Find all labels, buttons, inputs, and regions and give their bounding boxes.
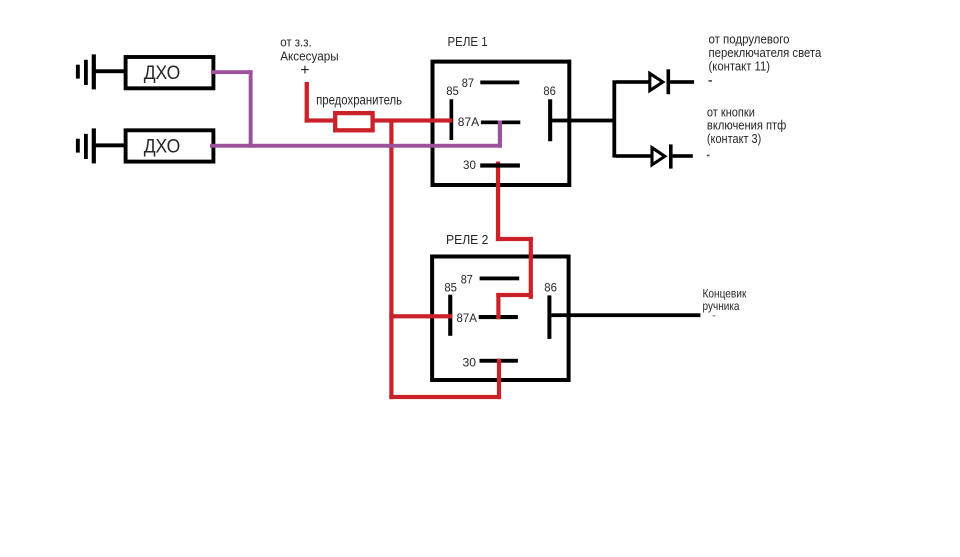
svg-text:ДХО: ДХО <box>144 136 181 157</box>
node diode junction vertical <box>612 80 616 157</box>
relay U1 pin 30 bar over red <box>480 163 520 167</box>
wire red bottom horizontal <box>389 395 501 399</box>
relay U1 RELE1 outline <box>433 35 570 185</box>
relay U2 pin 87 <box>461 272 520 286</box>
svg-text:87А: 87А <box>457 311 477 325</box>
relay U1 pin 87A <box>458 115 521 129</box>
wire red jog left <box>496 293 533 297</box>
svg-text:от з.з.: от з.з. <box>280 36 312 50</box>
wire purple from DRL1 <box>211 70 253 74</box>
fuse F1 <box>335 113 372 130</box>
wire purple up to relay1 pin87A <box>498 121 502 148</box>
wire purple down <box>249 70 253 148</box>
svg-text:Концевик: Концевик <box>703 288 748 301</box>
relay U2 RELE2 outline <box>432 233 568 380</box>
svg-text:85: 85 <box>444 281 457 295</box>
wire red tee onto relay2 87A <box>496 315 500 319</box>
svg-text:87: 87 <box>461 272 473 286</box>
svg-text:85: 85 <box>446 84 459 98</box>
wire GND2 to DRL2 <box>96 143 128 147</box>
wire red jog right <box>496 237 533 241</box>
svg-text:87А: 87А <box>458 115 479 129</box>
relay U2 pin 85 <box>444 281 457 336</box>
wire red to fuse <box>305 118 336 122</box>
wire red jog down <box>529 237 533 299</box>
wire GND1 to DRL1 <box>96 69 128 73</box>
wire node to diode D1 <box>616 80 649 84</box>
label steering column switch (kontakt 11) <box>709 31 822 82</box>
relay U1 pin 85 <box>446 84 459 140</box>
svg-text:ДХО: ДХО <box>144 63 181 84</box>
label fog light button (kontakt 3) <box>707 104 787 156</box>
DRL unit DHO2 <box>126 130 214 161</box>
wire D1 out <box>670 80 694 84</box>
wire node to diode D2 <box>616 154 651 158</box>
svg-text:(контакт 11): (контакт 11) <box>709 58 771 73</box>
svg-text:ручника: ручника <box>703 300 740 313</box>
diode D1 <box>650 69 670 94</box>
svg-text:РЕЛЕ 2: РЕЛЕ 2 <box>446 233 488 247</box>
wire purple from DRL2 to relay1 <box>210 144 502 148</box>
DRL unit DHO1 <box>126 57 214 88</box>
svg-text:РЕЛЕ 1: РЕЛЕ 1 <box>448 35 488 49</box>
svg-text:от подрулевого: от подрулевого <box>709 31 790 46</box>
wire red tee onto relay2 30 <box>497 359 501 363</box>
svg-text:86: 86 <box>544 281 557 295</box>
wire relay1 pin86 to diode node <box>551 119 615 123</box>
svg-text:(контакт 3): (контакт 3) <box>707 131 761 146</box>
relay U2 pin 86 <box>544 281 557 339</box>
svg-text:30: 30 <box>463 356 477 370</box>
wire red to relay2 pin85 <box>389 314 452 318</box>
wire red main branch down <box>389 119 393 399</box>
wire red down to relay2 pin87A <box>496 293 500 319</box>
relay U2 pin 30 bar <box>480 359 518 363</box>
wire D2 out <box>673 154 693 158</box>
wire red from plus down <box>305 82 309 123</box>
ground GND2 <box>76 128 96 163</box>
relay U1 pin 87 <box>462 76 520 90</box>
relay U1 pin 86 <box>543 84 556 141</box>
label handbrake switch koncevik ruchnika <box>703 288 748 317</box>
svg-text:86: 86 <box>543 84 556 98</box>
ground GND1 <box>76 54 96 89</box>
svg-text:30: 30 <box>463 158 476 172</box>
relay U2 pin 87A bar <box>479 315 518 319</box>
wire red from relay1 pin30 down <box>496 162 500 242</box>
svg-text:87: 87 <box>462 76 475 90</box>
wire relay2 pin86 to handbrake <box>551 313 700 317</box>
diode D2 <box>652 144 673 168</box>
svg-text:+: + <box>300 62 309 79</box>
svg-text:предохранитель: предохранитель <box>316 93 402 108</box>
wire red fuse to relay1 pin85 <box>374 118 452 122</box>
wire red up to relay2 pin30 <box>497 359 501 399</box>
